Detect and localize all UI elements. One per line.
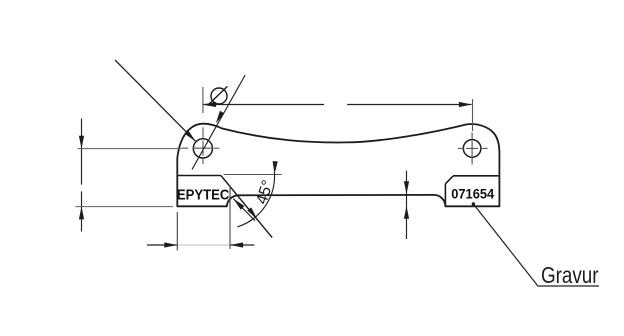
bottom dim right arrow <box>230 242 243 247</box>
left dim bottom extension <box>75 206 173 208</box>
bottom dimension <box>147 244 254 246</box>
top dim right arrow <box>459 102 472 107</box>
right hole centerlines <box>458 132 488 164</box>
diameter symbol <box>211 88 227 104</box>
diameter leader <box>192 75 245 170</box>
step dim top arrow <box>404 181 409 194</box>
step dim bottom arrow <box>404 206 409 219</box>
step dimension (web to bottom) <box>406 171 408 239</box>
left hole centerlines <box>181 127 219 164</box>
left pocket chamfer + 45deg extension line <box>221 176 272 238</box>
left pocket right edge + extension down <box>229 186 231 250</box>
bottom dim left arrow <box>164 242 177 247</box>
left dimension vertical line <box>81 119 83 232</box>
45deg arc top arrow <box>272 161 278 174</box>
bottom dim faint middle line <box>177 244 230 246</box>
left dim bottom arrow <box>79 206 84 219</box>
top dim right extension <box>472 99 474 131</box>
top dim left arrow <box>203 102 216 107</box>
45deg horizontal extension line <box>224 174 282 176</box>
svg-text:EPYTEC: EPYTEC <box>177 186 230 203</box>
left hole <box>193 139 212 158</box>
left pocket top edge <box>177 175 221 177</box>
Gravur leader line <box>473 204 599 286</box>
svg-text:Gravur: Gravur <box>541 262 599 288</box>
45deg leader arrow at fillet <box>233 199 254 221</box>
upper-left leader <box>115 60 196 141</box>
left dim top extension <box>78 148 182 150</box>
left dim top arrow <box>79 136 84 149</box>
svg-text:071654: 071654 <box>451 186 494 202</box>
Gravur leader dot <box>472 202 475 205</box>
45deg dimension arc <box>237 172 274 227</box>
right hole <box>463 140 481 158</box>
top dim left extension (hole v-centerline up) <box>202 87 204 113</box>
right pocket left edge <box>444 184 446 207</box>
top dimension line <box>203 104 471 106</box>
part outline <box>177 124 499 207</box>
bottom dim left extension <box>176 212 178 251</box>
right pocket chamfer <box>445 176 453 184</box>
right pocket top edge <box>453 175 499 177</box>
45deg arc tangent arrow <box>247 207 259 220</box>
